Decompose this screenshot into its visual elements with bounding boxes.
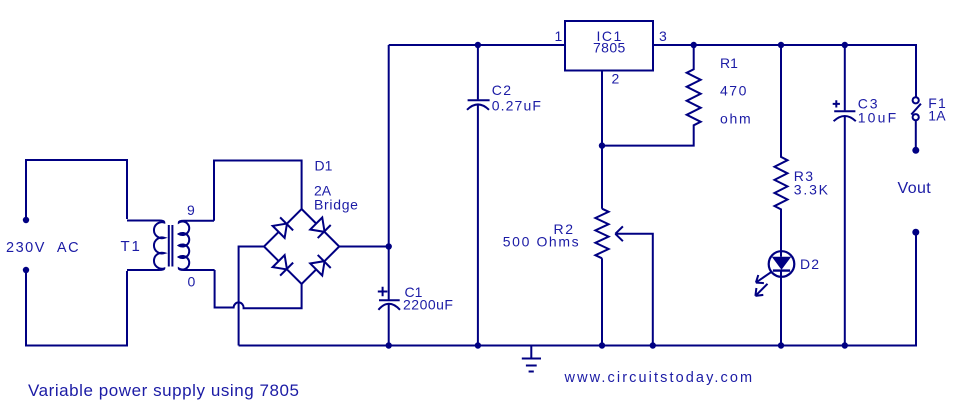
LED D2 cathode bar bbox=[773, 269, 790, 271]
node C3 top bbox=[842, 42, 848, 48]
node R2 bottom bbox=[599, 342, 605, 348]
AC terminal bottom dot bbox=[23, 267, 29, 273]
node R1 top bbox=[691, 42, 697, 48]
node D2 bottom bbox=[778, 342, 784, 348]
svg-text:Vout: Vout bbox=[898, 180, 932, 197]
capacitor C3 wire upper bbox=[844, 45, 846, 110]
transformer T1 primary winding bbox=[127, 220, 164, 270]
top rail left segment bbox=[389, 44, 565, 46]
capacitor C1 branch wire lower bbox=[388, 304, 390, 346]
diode D1 upper-right bbox=[310, 217, 331, 238]
transformer T1 core bbox=[169, 225, 173, 267]
potentiometer R2 zigzag bbox=[595, 209, 608, 259]
wire secondary 9 to bridge top bbox=[214, 161, 302, 221]
LED D2 circle bbox=[769, 251, 795, 277]
svg-text:Variable power supply using 78: Variable power supply using 7805 bbox=[28, 381, 300, 400]
Vout terminal lower dot bbox=[912, 229, 919, 236]
svg-text:D1: D1 bbox=[315, 158, 333, 174]
svg-text:470: 470 bbox=[720, 83, 748, 99]
bridge D1 diamond bbox=[264, 209, 339, 284]
capacitor C1 plates bbox=[379, 299, 400, 301]
node C2 bottom bbox=[475, 342, 481, 348]
svg-text:2: 2 bbox=[612, 70, 620, 86]
Vout terminal upper dot bbox=[912, 147, 919, 154]
svg-text:3: 3 bbox=[659, 28, 667, 44]
wire secondary 0 to bridge bottom (with hop) bbox=[215, 270, 302, 308]
LED D2 wire through bbox=[780, 251, 782, 345]
capacitor C3 plates bbox=[834, 110, 855, 112]
svg-text:2200uF: 2200uF bbox=[403, 297, 453, 313]
svg-text:T1: T1 bbox=[121, 238, 142, 255]
AC source loop bottom bbox=[26, 271, 127, 346]
capacitor C1 plus sign bbox=[378, 287, 388, 297]
ground bbox=[522, 346, 541, 372]
fuse F1 circles bbox=[913, 97, 919, 103]
wire bridge right vertex to C1 node bbox=[339, 246, 389, 248]
top rail right segment bbox=[653, 45, 916, 97]
diode D1 lower-right bbox=[310, 255, 331, 276]
svg-text:0: 0 bbox=[188, 274, 196, 290]
node R2 wiper bottom bbox=[650, 342, 656, 348]
AC source loop top bbox=[26, 160, 127, 219]
svg-text:10uF: 10uF bbox=[858, 109, 899, 125]
svg-text:1A: 1A bbox=[928, 108, 946, 124]
capacitor C2 wire upper bbox=[477, 45, 479, 99]
capacitor C1 branch wire upper bbox=[388, 45, 390, 300]
LED D2 triangle bbox=[772, 257, 791, 270]
diode D1 lower-left bbox=[272, 255, 293, 276]
svg-text:Bridge: Bridge bbox=[314, 197, 359, 213]
capacitor C3 plus sign bbox=[833, 100, 840, 107]
potentiometer R2 wiper arrow bbox=[615, 226, 653, 345]
capacitor C2 plates bbox=[468, 99, 490, 101]
bottom rail bbox=[239, 232, 916, 345]
IC1 7805 box bbox=[565, 21, 653, 71]
capacitor C3 wire lower bbox=[844, 116, 846, 346]
svg-text:230V AC: 230V AC bbox=[6, 240, 80, 256]
svg-text:C2: C2 bbox=[492, 82, 513, 98]
svg-text:D2: D2 bbox=[800, 256, 820, 272]
svg-text:7805: 7805 bbox=[593, 40, 626, 56]
svg-text:ohm: ohm bbox=[720, 111, 752, 127]
fuse F1 lower wire bbox=[915, 120, 917, 150]
resistor R3 wire and zigzag bbox=[775, 45, 788, 251]
capacitor C2 wire lower bbox=[477, 105, 479, 346]
node bridge output junction bbox=[386, 243, 392, 249]
node R3 top bbox=[778, 42, 784, 48]
transformer T1 secondary winding bbox=[179, 221, 215, 270]
svg-text:500 Ohms: 500 Ohms bbox=[503, 234, 580, 250]
fuse F1 slash bbox=[911, 104, 921, 115]
diode D1 upper-left bbox=[272, 217, 293, 238]
LED D2 arrow 1 bbox=[756, 272, 771, 283]
svg-text:9: 9 bbox=[187, 202, 195, 218]
LED D2 arrow 2 bbox=[755, 284, 767, 296]
IC1 pin2 wire bbox=[601, 71, 603, 346]
svg-text:R1: R1 bbox=[720, 55, 738, 71]
node pin2/R1 junction bbox=[599, 142, 605, 148]
svg-text:0.27uF: 0.27uF bbox=[492, 97, 542, 113]
node C1 bottom bbox=[386, 342, 392, 348]
svg-text:www.circuitstoday.com: www.circuitstoday.com bbox=[564, 370, 755, 386]
svg-text:1: 1 bbox=[555, 28, 563, 44]
AC terminal top dot bbox=[23, 217, 29, 223]
node C3 bottom bbox=[842, 342, 848, 348]
svg-text:3.3K: 3.3K bbox=[794, 182, 830, 198]
resistor R1 bbox=[602, 45, 701, 146]
node C2 top bbox=[475, 42, 481, 48]
wire bridge left vertex to ground rail bbox=[239, 247, 264, 346]
